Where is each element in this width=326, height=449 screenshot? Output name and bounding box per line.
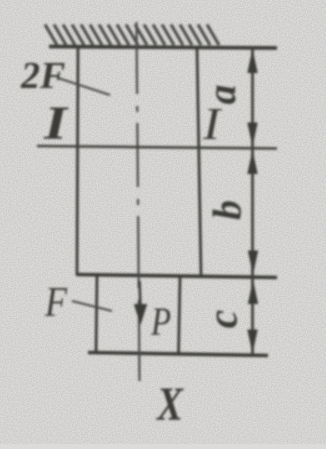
- svg-text:I: I: [202, 98, 223, 149]
- svg-text:F: F: [44, 280, 67, 326]
- svg-text:X: X: [155, 378, 183, 431]
- svg-text:I: I: [43, 97, 70, 150]
- svg-text:P: P: [150, 299, 171, 344]
- svg-text:2F: 2F: [20, 55, 65, 97]
- svg-text:a: a: [199, 85, 244, 105]
- svg-text:b: b: [205, 200, 250, 220]
- svg-text:c: c: [201, 309, 247, 328]
